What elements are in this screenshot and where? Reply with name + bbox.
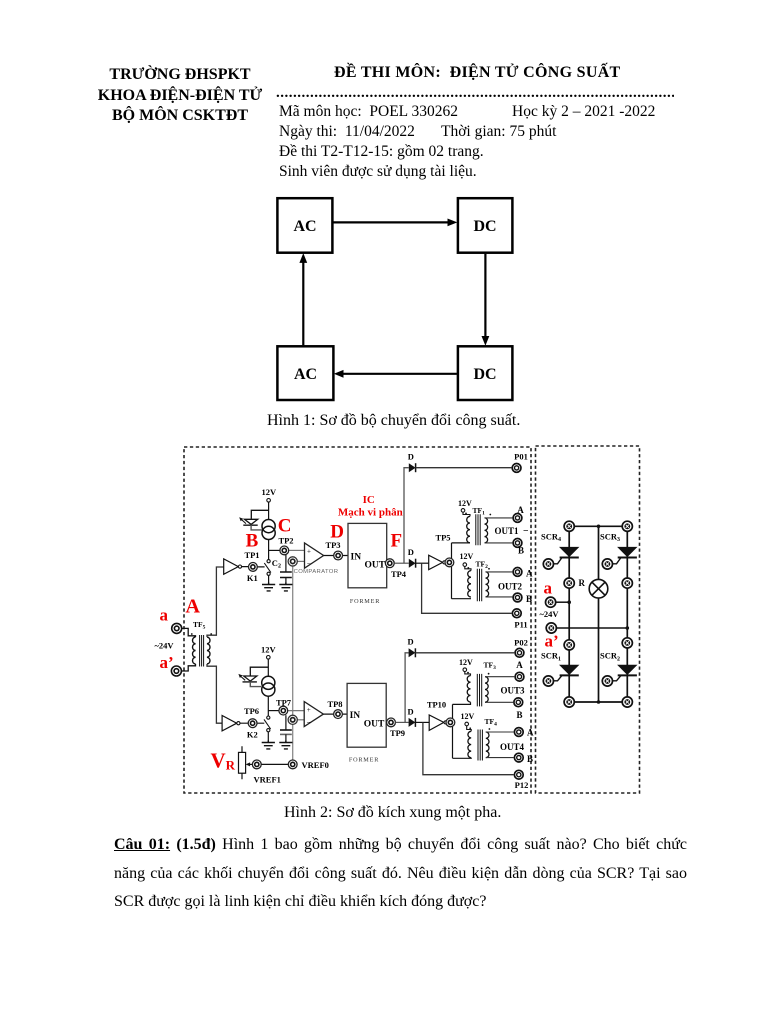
svg-text:TF2: TF2 <box>476 560 489 571</box>
SCR3 <box>617 547 637 557</box>
svg-text:~24V: ~24V <box>155 641 175 651</box>
wire node to TP7 and comparator plus <box>268 710 278 712</box>
svg-text:+: + <box>307 548 311 556</box>
arrowhead up <box>299 253 307 263</box>
terminal P11 <box>512 609 521 618</box>
svg-text:TF3: TF3 <box>484 661 497 672</box>
svg-text:P12: P12 <box>515 780 529 790</box>
wire opto to switch <box>267 696 269 716</box>
vertical rail TF1/TF2 primary <box>451 543 453 599</box>
wire drop to P12 <box>423 722 514 774</box>
comparator minus node (bottom) <box>297 719 304 721</box>
IC block (former, bottom) <box>347 683 386 747</box>
svg-text:TP9: TP9 <box>390 728 405 738</box>
svg-text:B: B <box>516 710 522 720</box>
wire 12V to opto <box>268 502 270 519</box>
svg-text:A: A <box>517 505 524 515</box>
svg-text:FORMER: FORMER <box>350 598 380 605</box>
wire top rail <box>569 525 627 527</box>
wire TF3 secondary to A,B <box>485 677 514 703</box>
wire bottom rail <box>569 701 627 703</box>
terminal a' (bridge input) <box>546 623 556 633</box>
svg-text:TP6: TP6 <box>244 706 259 716</box>
FIG1 <box>277 198 512 400</box>
wire diode to TP10 buffer <box>415 721 429 723</box>
terminal OUT3 B <box>514 698 523 707</box>
switch K2 <box>264 719 271 729</box>
terminal a (bridge input) <box>546 597 556 607</box>
wire TF2 primary bottom <box>452 598 472 600</box>
svg-text:SCR4: SCR4 <box>541 532 561 544</box>
potentiometer VR <box>239 752 246 773</box>
wire a to TF5 primary <box>182 628 196 637</box>
svg-text:12V: 12V <box>461 712 475 721</box>
wire TF4 primary bottom <box>453 757 472 760</box>
test point VREF1 <box>252 760 261 769</box>
arrowhead left <box>334 370 344 378</box>
arrow DC to AC (bottom) <box>343 373 457 375</box>
wire riser to P01 diode <box>404 468 409 564</box>
svg-text:AC: AC <box>293 218 316 235</box>
terminal a' <box>171 666 181 676</box>
info line 3 <box>279 143 484 161</box>
block AC top-left <box>277 198 332 253</box>
svg-text:D: D <box>408 547 414 557</box>
test point TP3 <box>334 551 343 560</box>
svg-text:VREF1: VREF1 <box>254 775 281 785</box>
svg-text:OUT2: OUT2 <box>498 582 523 592</box>
svg-text:B: B <box>527 754 533 764</box>
arrowhead right <box>448 219 458 227</box>
comparator (bottom) <box>304 702 323 727</box>
svg-text:B: B <box>526 594 532 604</box>
wire a' to right branch <box>557 627 627 629</box>
wire TF5 primary to a' <box>182 664 196 671</box>
opto transistor circles (top) <box>262 520 275 533</box>
svg-text:VR: VR <box>211 748 236 772</box>
svg-text:~24V: ~24V <box>540 609 560 619</box>
caption figure 2 <box>284 804 501 822</box>
test point TP5 <box>445 558 454 567</box>
terminal OUT4 A <box>514 728 523 737</box>
svg-text:IN: IN <box>350 711 361 721</box>
wire comparator out to TP3 to IC <box>324 555 348 557</box>
terminal OUT4 B <box>514 753 523 762</box>
terminal OUT2 B <box>513 593 522 602</box>
transformer TF5 <box>193 635 210 667</box>
svg-text:IC: IC <box>363 494 375 506</box>
svg-text:OUT1: OUT1 <box>495 526 520 536</box>
arrow AC up (left) <box>302 263 304 346</box>
wire switch to ground <box>267 732 269 743</box>
diode D (series, bottom) <box>409 718 416 727</box>
svg-text:Mạch vi phân: Mạch vi phân <box>338 507 403 519</box>
svg-text:R: R <box>579 578 586 588</box>
info line 1 <box>279 103 458 121</box>
caption figure 1 <box>267 412 520 430</box>
svg-text:B: B <box>246 531 259 552</box>
wire TF1 primary bottom <box>452 542 471 544</box>
svg-text:OUT4: OUT4 <box>500 742 525 752</box>
svg-text:12V: 12V <box>261 644 277 654</box>
test point TP8 <box>334 710 343 719</box>
svg-text:12V: 12V <box>460 552 474 561</box>
svg-text:C: C <box>278 516 292 537</box>
wire VREF1 to VREF0 <box>261 763 288 765</box>
switch K1 <box>264 563 271 573</box>
svg-text:A: A <box>526 569 533 579</box>
test point TP10 <box>446 718 455 727</box>
test point TP4 <box>385 559 394 568</box>
SCR4 <box>559 547 579 557</box>
svg-text:P01: P01 <box>514 452 528 462</box>
svg-text:DC: DC <box>473 218 496 235</box>
block DC top-right <box>458 198 513 253</box>
arrow AC to DC (top) <box>333 221 448 223</box>
terminal OUT1 A <box>513 514 522 523</box>
svg-text:F: F <box>391 531 403 552</box>
terminal P12 <box>514 770 523 779</box>
inverter K1 buffer <box>224 559 239 574</box>
right dashed enclosure <box>536 446 640 793</box>
wire buffer to TP6 <box>240 722 264 724</box>
svg-text:SCR2: SCR2 <box>600 651 620 663</box>
wire diode to P02 <box>415 652 514 654</box>
wire diode to P01 <box>416 467 512 469</box>
svg-text:D: D <box>330 522 344 543</box>
dotted separator <box>276 85 674 103</box>
svg-text:a: a <box>160 606 169 625</box>
svg-text:OUT: OUT <box>365 560 386 570</box>
svg-text:A: A <box>186 596 201 618</box>
svg-text:TF4: TF4 <box>485 717 498 728</box>
svg-text:DC: DC <box>473 366 496 383</box>
terminal OUT3 A <box>515 672 524 681</box>
wire switch to ground <box>268 575 270 584</box>
wire TF1 secondary to A,B <box>485 518 513 543</box>
svg-text:TP10: TP10 <box>427 699 446 709</box>
wire buffer to TP1 <box>242 566 265 568</box>
wire left bridge branch <box>568 526 570 702</box>
wire 12V to opto <box>267 659 269 676</box>
diode D (series, top) <box>409 559 416 568</box>
opto LED (top) <box>251 510 268 519</box>
bridge terminals <box>564 521 574 531</box>
svg-text:K2: K2 <box>247 729 258 739</box>
diode D (to P02) <box>409 648 416 657</box>
svg-text:P11: P11 <box>514 619 527 629</box>
svg-text:SCR3: SCR3 <box>600 532 620 544</box>
ground (switch) <box>262 583 275 591</box>
svg-text:TP4: TP4 <box>391 569 407 579</box>
vertical rail TF3/TF4 primary <box>452 704 454 758</box>
wire diode to TP5 buffer <box>416 562 429 564</box>
terminal OUT1 B <box>513 539 522 548</box>
info line 2 <box>279 123 415 141</box>
svg-text:K1: K1 <box>247 573 258 583</box>
svg-text:TP7: TP7 <box>276 697 292 707</box>
ground (C2) <box>279 583 292 591</box>
svg-text:FORMER: FORMER <box>349 757 379 764</box>
wire a to left branch <box>556 601 569 603</box>
svg-text:TF5: TF5 <box>193 620 206 631</box>
svg-text:TP8: TP8 <box>327 699 342 709</box>
svg-text:a’: a’ <box>545 631 559 650</box>
wire lamp branch <box>598 526 600 702</box>
test point TP7 <box>279 706 288 715</box>
wire opto to switch <box>268 540 270 560</box>
diode D (to P01) <box>409 463 416 472</box>
svg-text:COMPARATOR: COMPARATOR <box>294 569 339 575</box>
header left block <box>89 65 271 127</box>
svg-text:OUT: OUT <box>364 719 385 729</box>
svg-text:TF1: TF1 <box>473 506 486 517</box>
wire TF2 secondary to A,B <box>486 572 513 597</box>
svg-text:D: D <box>408 637 414 647</box>
opto LED (bottom) <box>250 667 268 675</box>
wire comparator out to TP8 to IC <box>323 713 347 715</box>
capacitor (bottom) <box>285 715 287 730</box>
block DC bottom-right <box>458 346 513 400</box>
junction dots <box>597 525 601 529</box>
svg-text:TP2: TP2 <box>278 535 293 545</box>
svg-text:IN: IN <box>351 552 362 562</box>
test point TP2 <box>280 546 289 555</box>
svg-text:a’: a’ <box>160 653 174 672</box>
capacitor C2 <box>285 555 287 572</box>
ground (capacitor bottom) <box>279 741 292 749</box>
wire drop to P11 <box>422 563 512 613</box>
info line 4 <box>279 163 477 181</box>
svg-text:C2: C2 <box>272 558 281 570</box>
wire riser to P02 diode <box>405 653 409 723</box>
SCR2 <box>617 665 637 675</box>
arrow DC down (right) <box>484 254 486 337</box>
lamp R <box>589 579 608 598</box>
SCR1 <box>559 665 579 675</box>
wire TF4 secondary to A,B <box>486 732 514 758</box>
svg-text:12V: 12V <box>458 499 472 508</box>
buffer TP5 <box>429 555 443 569</box>
comparator minus node <box>297 560 305 562</box>
svg-text:B: B <box>518 545 524 555</box>
svg-text:D: D <box>408 452 414 462</box>
terminal P02 <box>515 648 524 657</box>
opto transistor circles (bottom) <box>262 676 275 689</box>
wire TP4 to diodes <box>394 562 408 564</box>
terminal P01 <box>512 464 521 473</box>
wire TF5 secondary top to K1 buffer <box>207 567 224 637</box>
svg-text:12V: 12V <box>262 487 278 497</box>
svg-text:+: + <box>307 706 311 714</box>
wire TF3 primary bottom <box>453 702 471 704</box>
svg-text:a: a <box>544 579 553 598</box>
test point TP1 <box>249 563 258 572</box>
terminal a <box>172 623 182 633</box>
IC block (former, top) <box>348 523 387 587</box>
svg-text:AC: AC <box>294 366 317 383</box>
svg-text:TP5: TP5 <box>435 532 450 542</box>
inverter K2 buffer <box>222 716 237 731</box>
svg-text:D: D <box>408 706 414 716</box>
wire right bridge branch <box>626 526 628 702</box>
wire TF5 secondary bottom to K2 buffer <box>207 664 222 723</box>
wire TP9 to diodes <box>396 721 409 723</box>
wire: VREF vertical rail (comparator minus bus) <box>292 561 294 759</box>
main dashed enclosure <box>184 447 531 793</box>
test point TP9 <box>387 718 396 727</box>
svg-text:12V: 12V <box>459 658 473 667</box>
header title <box>334 64 621 82</box>
svg-text:OUT3: OUT3 <box>501 686 526 696</box>
svg-text:P02: P02 <box>514 637 528 647</box>
svg-text:VREF0: VREF0 <box>302 760 329 770</box>
test point TP6 <box>248 719 257 728</box>
block AC bottom-left <box>277 346 333 400</box>
wire node to TP2 and comparator plus <box>269 549 280 551</box>
svg-text:SCR1: SCR1 <box>541 651 561 663</box>
comparator (top) <box>305 543 324 568</box>
ground (switch K2) <box>262 741 275 749</box>
buffer TP10 <box>429 715 444 730</box>
arrowhead down <box>482 336 490 346</box>
test point VREF0 <box>288 760 297 769</box>
svg-text:A: A <box>527 728 534 738</box>
svg-text:A: A <box>516 660 523 670</box>
terminal OUT2 A <box>513 568 522 577</box>
question paragraph <box>114 836 687 854</box>
